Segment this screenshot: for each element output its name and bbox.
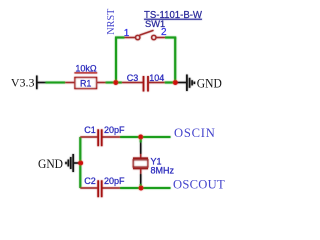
svg-text:1: 1 xyxy=(124,28,130,39)
svg-text:V3.3: V3.3 xyxy=(11,76,35,90)
svg-text:C2: C2 xyxy=(84,176,96,186)
svg-text:C1: C1 xyxy=(84,125,96,135)
svg-text:10kΩ: 10kΩ xyxy=(75,64,97,74)
svg-text:GND: GND xyxy=(197,76,222,91)
svg-text:NRST: NRST xyxy=(106,8,117,35)
svg-text:OSCOUT: OSCOUT xyxy=(173,178,225,192)
svg-text:20pF: 20pF xyxy=(104,176,125,186)
svg-text:R1: R1 xyxy=(80,79,92,89)
svg-text:OSCIN: OSCIN xyxy=(174,126,216,140)
svg-text:20pF: 20pF xyxy=(104,125,125,135)
svg-text:104: 104 xyxy=(149,73,164,83)
svg-text:GND: GND xyxy=(38,156,63,171)
svg-text:8MHz: 8MHz xyxy=(151,165,175,175)
svg-text:C3: C3 xyxy=(127,73,139,83)
svg-text:SW1: SW1 xyxy=(145,19,165,29)
